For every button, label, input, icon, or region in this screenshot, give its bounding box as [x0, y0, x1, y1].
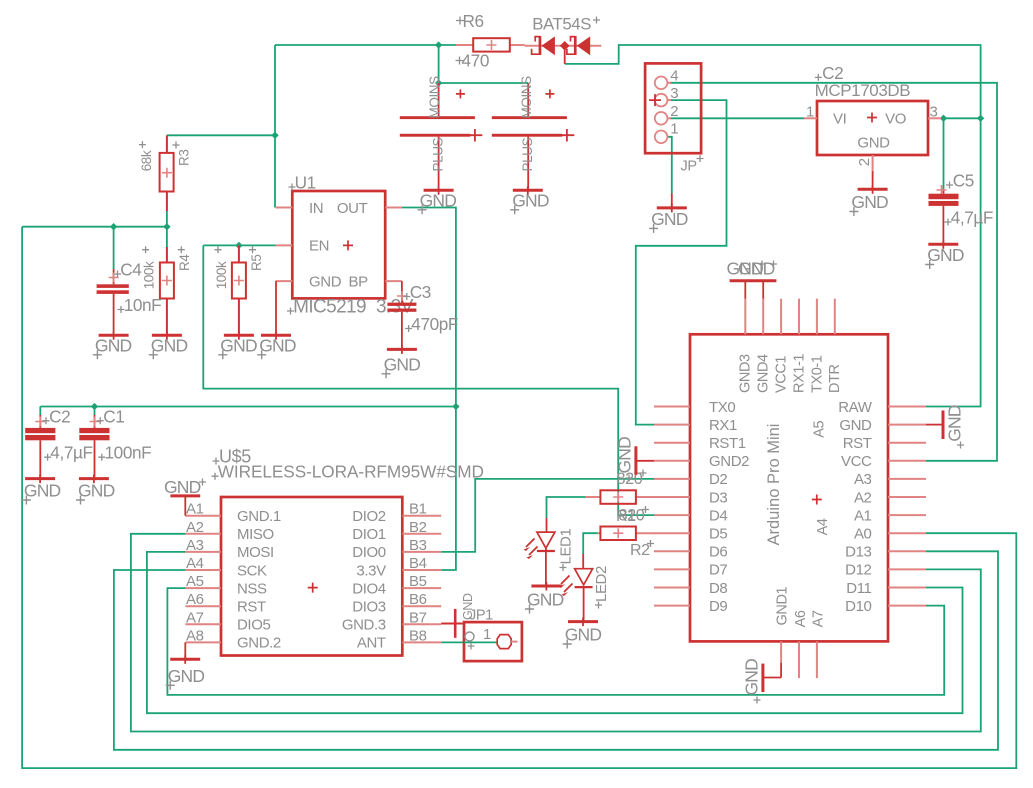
- svg-text:GND: GND: [565, 625, 602, 645]
- svg-text:A0: A0: [854, 526, 872, 543]
- svg-text:VCC: VCC: [841, 453, 872, 470]
- svg-text:RST: RST: [843, 435, 872, 452]
- ground MCP: [858, 188, 888, 191]
- svg-text:DIO1: DIO1: [352, 526, 385, 543]
- pin D10: [888, 605, 926, 607]
- ground Arduino top: [730, 279, 777, 282]
- capacitor C2: [39, 415, 41, 428]
- pin B7 GND.3: [402, 623, 441, 625]
- svg-text:GND: GND: [220, 335, 257, 355]
- IC Arduino Pro Mini: [690, 334, 888, 641]
- svg-text:R2: R2: [630, 542, 650, 559]
- svg-text:D5: D5: [709, 526, 727, 543]
- svg-text:DIO2: DIO2: [352, 508, 385, 525]
- svg-text:MOINS: MOINS: [519, 76, 534, 119]
- pin B8 ANT: [402, 641, 441, 643]
- pin RX1-1: [798, 299, 800, 335]
- svg-text:MISO: MISO: [237, 526, 274, 543]
- U$5 origin: [308, 583, 318, 593]
- pin D3: [654, 496, 690, 498]
- wire R3 bottom: [166, 210, 168, 227]
- svg-text:DTR: DTR: [827, 364, 843, 393]
- pin B3 DIO0: [402, 551, 441, 553]
- svg-text:C3: C3: [410, 282, 431, 302]
- wire C4 branch: [113, 227, 115, 269]
- svg-text:DIO0: DIO0: [352, 544, 385, 561]
- svg-text:1: 1: [483, 626, 491, 643]
- svg-text:OUT: OUT: [337, 200, 368, 217]
- pin GND4: [762, 299, 764, 335]
- svg-text:B3: B3: [409, 537, 427, 554]
- wire R2 to LED2 anode: [583, 533, 600, 554]
- ground battery G2: [513, 189, 543, 192]
- svg-text:GND1: GND1: [775, 586, 791, 625]
- svg-text:A4: A4: [186, 555, 204, 572]
- ground RFM A8: [170, 658, 200, 661]
- svg-text:GND.1: GND.1: [237, 508, 281, 525]
- wire C1 lead: [94, 407, 96, 416]
- svg-text:A3: A3: [186, 537, 204, 554]
- svg-text:3.3V: 3.3V: [376, 297, 414, 318]
- wire GND3 GND4 to flag: [744, 281, 746, 299]
- junction BAT54S common: [560, 41, 570, 51]
- svg-text:D4: D4: [709, 507, 727, 524]
- svg-text:A4: A4: [815, 518, 831, 535]
- IC IC2 MCP1703: [817, 101, 928, 155]
- pin TX0-1: [816, 299, 818, 335]
- svg-text:MOSI: MOSI: [237, 544, 274, 561]
- wire RFM GND.2 to ground: [184, 642, 186, 657]
- svg-text:IN: IN: [309, 200, 323, 217]
- svg-text:DIO3: DIO3: [352, 599, 385, 616]
- pin A2: [888, 496, 926, 498]
- pin GND: [888, 424, 926, 426]
- svg-text:GND: GND: [839, 417, 872, 434]
- wire R1 to LED1 anode: [547, 497, 586, 518]
- svg-text:GND: GND: [24, 481, 61, 501]
- ground R5: [224, 334, 254, 337]
- wire U1 OUT 3.3V to RFM 3.3V B4: [402, 208, 456, 571]
- wire ANT into JP1: [464, 641, 498, 643]
- svg-text:PLUS: PLUS: [520, 137, 535, 171]
- svg-text:BAT54S: BAT54S: [532, 15, 591, 34]
- svg-text:B8: B8: [409, 627, 427, 644]
- wire JP1 pin1 lead: [671, 194, 673, 207]
- svg-text:A6: A6: [186, 591, 204, 608]
- svg-text:10nF: 10nF: [124, 295, 162, 315]
- svg-text:MCP1703DB: MCP1703DB: [815, 81, 911, 100]
- wire RFM DIO0 B3 to Arduino D2: [441, 479, 655, 552]
- svg-text:A6: A6: [793, 610, 809, 627]
- wire JP pin3 to Arduino RX1: [636, 100, 727, 425]
- wire EN loop to Arduino D4: [203, 245, 655, 515]
- svg-text:GND: GND: [851, 192, 888, 212]
- wire battery2 branch: [439, 82, 529, 84]
- ground U1: [261, 334, 291, 337]
- resistor R3: [166, 135, 168, 153]
- ground R4: [152, 334, 182, 337]
- svg-text:A5: A5: [811, 421, 827, 438]
- pin GND1: [780, 641, 782, 663]
- junction: [235, 242, 242, 249]
- svg-text:100nF: 100nF: [105, 443, 152, 463]
- svg-text:2: 2: [856, 158, 873, 166]
- pin RST1: [654, 442, 690, 444]
- svg-text:R3: R3: [176, 150, 191, 166]
- junction: [91, 403, 98, 410]
- svg-text:GND: GND: [527, 590, 564, 610]
- pin D13: [888, 550, 926, 552]
- pin B5 DIO4: [402, 587, 441, 589]
- svg-text:1: 1: [670, 121, 678, 138]
- svg-text:VI: VI: [833, 111, 846, 128]
- battery G2 bottom lead: [527, 137, 529, 189]
- svg-text:Arduino Pro Mini: Arduino Pro Mini: [765, 424, 783, 546]
- svg-text:WIRELESS-LORA-RFM95W#SMD: WIRELESS-LORA-RFM95W#SMD: [218, 462, 484, 482]
- svg-text:R6: R6: [463, 11, 484, 31]
- wire JP pin1 to GND: [667, 137, 671, 194]
- wire VO to Arduino RAW: [926, 118, 981, 406]
- JP origin: [649, 94, 661, 106]
- svg-text:3: 3: [670, 85, 678, 102]
- LED LED2: [582, 554, 584, 569]
- junction: [977, 115, 984, 122]
- svg-text:NSS: NSS: [237, 580, 267, 597]
- wire 3.3V to C2 C1: [40, 406, 456, 408]
- battery G1 top lead: [438, 83, 440, 116]
- svg-text:C2: C2: [822, 63, 843, 83]
- svg-text:A1: A1: [854, 507, 872, 524]
- pin D2: [654, 478, 690, 480]
- ground RFM A1 flag up: [170, 494, 200, 497]
- ground Arduino GND2 flag rotated: [634, 446, 637, 475]
- ground C3: [387, 348, 417, 351]
- wire R4 top: [166, 227, 168, 247]
- svg-text:GND: GND: [151, 335, 188, 355]
- svg-text:C5: C5: [953, 171, 974, 191]
- wire U1 EN row: [203, 244, 276, 246]
- junction: [435, 79, 442, 86]
- svg-text:MIC5219: MIC5219: [293, 297, 366, 318]
- capacitor C5: [943, 189, 945, 194]
- svg-text:BP: BP: [349, 273, 369, 290]
- svg-text:RX1-1: RX1-1: [791, 354, 807, 393]
- diode D2 BAT54S: [567, 37, 575, 55]
- svg-text:GND: GND: [164, 477, 201, 497]
- svg-text:RAW: RAW: [838, 399, 872, 416]
- svg-text:D12: D12: [845, 562, 871, 579]
- capacitor C4: [113, 269, 115, 284]
- pin A4 SCK: [185, 569, 221, 571]
- svg-text:3: 3: [930, 103, 938, 120]
- Arduino origin: [812, 495, 822, 505]
- svg-text:U1: U1: [295, 173, 316, 193]
- svg-text:GND: GND: [168, 666, 205, 686]
- svg-text:4,7µF: 4,7µF: [50, 443, 92, 463]
- wire VIN to U1 IN: [274, 45, 276, 208]
- resistor R4: [166, 247, 168, 263]
- svg-text:GND: GND: [651, 209, 688, 229]
- svg-text:VO: VO: [885, 111, 906, 128]
- pin GND2: [654, 460, 690, 462]
- svg-text:820: 820: [619, 507, 645, 525]
- junction: [163, 223, 170, 230]
- wire U1 GND pin to ground: [275, 281, 277, 334]
- svg-text:A8: A8: [186, 627, 204, 644]
- pin A3: [888, 478, 926, 480]
- svg-text:DIO4: DIO4: [352, 580, 385, 597]
- pin RAW: [888, 406, 926, 408]
- ground LED2: [568, 620, 598, 623]
- pin A5 NSS: [185, 587, 221, 589]
- pin VCC: [888, 460, 926, 462]
- svg-text:4,7µF: 4,7µF: [951, 208, 993, 228]
- svg-text:DIO5: DIO5: [237, 617, 270, 634]
- LED LED1: [546, 518, 548, 532]
- svg-text:D11: D11: [846, 580, 871, 597]
- svg-text:EN: EN: [309, 238, 329, 255]
- svg-text:PLUS: PLUS: [431, 137, 446, 171]
- JP1 shield pin: [454, 609, 457, 638]
- svg-text:VCC1: VCC1: [773, 356, 789, 393]
- svg-text:R4: R4: [177, 254, 192, 271]
- pin D5: [654, 532, 690, 534]
- svg-text:GND: GND: [512, 190, 549, 210]
- pin A2 MISO: [185, 533, 221, 535]
- svg-text:GND2: GND2: [709, 453, 749, 470]
- svg-text:GND3: GND3: [738, 354, 754, 393]
- resistor R6: [456, 44, 473, 46]
- battery G2 top lead: [527, 83, 529, 116]
- pin A6: [798, 641, 800, 678]
- svg-text:A7: A7: [186, 609, 204, 626]
- svg-text:LED2: LED2: [593, 566, 610, 602]
- IC2 origin: [867, 113, 877, 123]
- svg-text:B4: B4: [409, 555, 427, 572]
- svg-text:ANT: ANT: [357, 635, 386, 652]
- wire RFM NSS to Arduino D10 loop: [167, 588, 944, 695]
- wire MCP VO node: [941, 117, 981, 119]
- ground C5: [928, 243, 958, 246]
- wire RFM MISO to Arduino D12 loop: [131, 534, 981, 732]
- svg-text:GND: GND: [945, 405, 965, 442]
- ground C4: [99, 334, 129, 337]
- svg-text:D13: D13: [845, 544, 871, 561]
- wire C2 lead: [39, 407, 41, 416]
- wire RFM GND.1 to flag: [184, 496, 186, 516]
- wire battery sense to Arduino A0 loop: [22, 227, 1016, 768]
- pin A7 DIO5: [185, 623, 221, 625]
- battery G2 origin: [545, 89, 554, 98]
- pin A3 MOSI: [185, 551, 221, 553]
- U1 origin: [343, 240, 353, 250]
- ground LED1: [531, 585, 561, 588]
- svg-text:GND: GND: [927, 245, 964, 265]
- battery G2 plates: [492, 116, 567, 119]
- wire R3 R4 junction rail: [22, 226, 167, 228]
- svg-text:470pF: 470pF: [411, 314, 458, 334]
- pin DTR: [834, 299, 836, 335]
- svg-text:TX0: TX0: [709, 399, 735, 416]
- svg-text:3.3V: 3.3V: [356, 562, 386, 579]
- battery G1 bottom lead: [438, 137, 440, 189]
- svg-text:GND: GND: [420, 190, 457, 210]
- pin A0: [888, 532, 926, 534]
- wire RFM ANT B8 to JP1: [441, 641, 497, 643]
- svg-text:470: 470: [462, 51, 489, 71]
- svg-text:D7: D7: [709, 562, 727, 579]
- svg-text:A2: A2: [186, 519, 204, 536]
- svg-text:LED1: LED1: [558, 529, 575, 565]
- svg-text:C1: C1: [103, 406, 124, 426]
- pin A1 GND.1: [185, 515, 221, 517]
- svg-text:1: 1: [806, 103, 814, 120]
- pin D6: [654, 550, 690, 552]
- resistor R2: [597, 532, 600, 534]
- IC U$5 RFM95W: [221, 497, 402, 656]
- ground Arduino right GND flag rotated: [942, 411, 945, 440]
- svg-text:RST: RST: [237, 599, 266, 616]
- resistor R5: [238, 245, 240, 262]
- pin RX1: [654, 424, 690, 426]
- wire R3 branch: [167, 134, 275, 136]
- svg-text:100k: 100k: [142, 261, 157, 289]
- pin B2 DIO1: [402, 533, 441, 535]
- svg-text:GND4: GND4: [756, 354, 772, 393]
- diode D1 BAT54S: [525, 45, 602, 47]
- svg-text:JP: JP: [681, 158, 697, 174]
- battery G1 plates: [400, 116, 475, 119]
- svg-text:D9: D9: [709, 598, 727, 615]
- pin TX0: [654, 406, 690, 408]
- svg-text:C4: C4: [120, 260, 142, 280]
- svg-text:A1: A1: [186, 501, 204, 518]
- svg-text:GND: GND: [742, 659, 762, 696]
- svg-text:TX0-1: TX0-1: [809, 355, 825, 393]
- pin D9: [654, 605, 690, 607]
- svg-text:D10: D10: [845, 598, 871, 615]
- svg-text:A7: A7: [810, 610, 826, 627]
- svg-text:RX1: RX1: [709, 417, 737, 434]
- svg-text:GND: GND: [384, 354, 421, 374]
- pin B1 DIO2: [402, 515, 441, 517]
- svg-text:B1: B1: [409, 501, 427, 518]
- svg-text:A3: A3: [854, 471, 872, 488]
- pin A8 GND.2: [185, 641, 221, 643]
- wire battery branch down: [438, 45, 440, 83]
- wire C5 branch: [943, 118, 945, 189]
- wire BAT54S mid to top-right rail: [565, 45, 981, 118]
- battery G1 origin: [456, 89, 465, 98]
- wire RFM MOSI to Arduino D11 loop: [147, 552, 963, 713]
- svg-text:GND: GND: [857, 135, 890, 152]
- ground battery G1: [424, 189, 454, 192]
- pin D11: [888, 587, 926, 589]
- wire JP pin2 to MCP VI: [670, 117, 804, 119]
- svg-text:RST1: RST1: [709, 435, 746, 452]
- ground Arduino GND1 flag rotated: [761, 664, 764, 692]
- pin A6 RST: [185, 605, 221, 607]
- capacitor C3: [401, 281, 403, 303]
- pin RST: [888, 442, 926, 444]
- connector JP1: [464, 622, 522, 661]
- svg-text:GND: GND: [259, 335, 296, 355]
- svg-text:B2: B2: [409, 519, 427, 536]
- resistor R1: [585, 496, 600, 498]
- junction: [940, 115, 947, 122]
- wire RFM SCK to Arduino D13 loop: [114, 551, 998, 750]
- svg-text:C2: C2: [49, 406, 70, 426]
- svg-text:A5: A5: [186, 573, 204, 590]
- junction: [110, 223, 117, 230]
- pin A7: [816, 641, 818, 678]
- svg-text:A2: A2: [854, 489, 872, 506]
- wire VIN top rail: [275, 44, 456, 46]
- pin B4 3.3V: [402, 569, 441, 571]
- svg-text:GND: GND: [78, 481, 115, 501]
- pin D7: [654, 568, 690, 570]
- svg-text:GND.2: GND.2: [237, 635, 281, 652]
- svg-text:GND: GND: [615, 437, 635, 474]
- pin B6 DIO3: [402, 605, 441, 607]
- wire MCP GND lead: [872, 171, 874, 188]
- pin VCC1: [780, 299, 782, 335]
- svg-text:D2: D2: [709, 471, 727, 488]
- svg-text:MOINS: MOINS: [427, 76, 442, 119]
- svg-text:GND.3: GND.3: [342, 617, 386, 634]
- ground C2: [25, 477, 55, 480]
- svg-text:B5: B5: [409, 573, 427, 590]
- capacitor C1: [94, 415, 96, 428]
- svg-text:2: 2: [670, 103, 678, 120]
- ground C1: [79, 477, 109, 480]
- pin A1: [888, 514, 926, 516]
- svg-text:B7: B7: [409, 609, 427, 626]
- pin D8: [654, 587, 690, 589]
- connector JP: [645, 63, 701, 153]
- svg-text:GND: GND: [738, 259, 775, 279]
- IC U1 MIC5219: [292, 191, 385, 298]
- svg-text:D6: D6: [709, 544, 727, 561]
- junction: [435, 41, 442, 48]
- svg-text:D8: D8: [709, 580, 727, 597]
- svg-text:R5: R5: [249, 255, 264, 271]
- pin D12: [888, 568, 926, 570]
- svg-text:68k: 68k: [139, 150, 154, 171]
- svg-text:B6: B6: [409, 591, 427, 608]
- ground JP: [657, 206, 687, 209]
- svg-text:GND: GND: [95, 335, 132, 355]
- pin GND3: [744, 299, 746, 335]
- wire JP pin4 to Arduino VCC: [670, 83, 997, 461]
- junction: [271, 132, 278, 139]
- svg-text:GND: GND: [461, 593, 475, 620]
- svg-text:D3: D3: [709, 489, 727, 506]
- pin D4: [654, 514, 690, 516]
- svg-text:GND: GND: [309, 273, 342, 290]
- svg-text:SCK: SCK: [237, 562, 267, 579]
- junction: [452, 403, 459, 410]
- svg-text:100k: 100k: [214, 261, 229, 289]
- svg-text:4: 4: [670, 67, 678, 84]
